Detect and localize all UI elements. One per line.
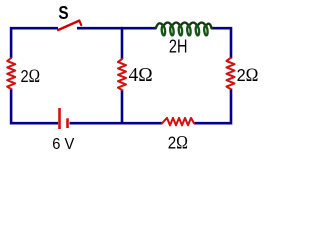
resistor left 2Ω zigzag	[7, 58, 15, 89]
svg-text:6 V: 6 V	[52, 136, 74, 153]
svg-text:2Ω: 2Ω	[237, 65, 259, 86]
wire: middle vertical branch lower segment	[121, 90, 124, 125]
inductor L 2H coil loops	[161, 26, 208, 36]
svg-text:2Ω: 2Ω	[21, 66, 41, 87]
battery 6V: short plate	[66, 118, 69, 128]
resistor right 2Ω zigzag	[227, 58, 235, 89]
wire: right rail below resistor to bottom rail	[194, 89, 231, 124]
wire: middle junction to inductor start	[121, 27, 156, 30]
resistor bottom 2Ω zigzag	[162, 118, 194, 125]
wire: inductor end to right rail corner, down to resistor	[211, 28, 231, 58]
wire: top-left horizontal (left rail to switch)	[11, 28, 58, 58]
battery 6V: long plate	[58, 108, 61, 129]
svg-text:S: S	[58, 2, 68, 23]
wire: battery to bottom-left corner up left rail	[11, 89, 58, 124]
wire: switch right contact to middle junction	[77, 27, 123, 30]
wire: middle vertical branch upper segment	[121, 27, 124, 59]
svg-text:2Ω: 2Ω	[168, 132, 188, 153]
svg-text:2H: 2H	[169, 36, 188, 57]
inductor L 2H coil top arcs	[156, 23, 212, 29]
resistor middle 4Ω zigzag	[118, 59, 126, 90]
switch S (open blade)	[58, 21, 81, 30]
wire: bottom rail between bottom resistor and battery	[70, 122, 163, 125]
svg-text:4Ω: 4Ω	[129, 64, 153, 86]
